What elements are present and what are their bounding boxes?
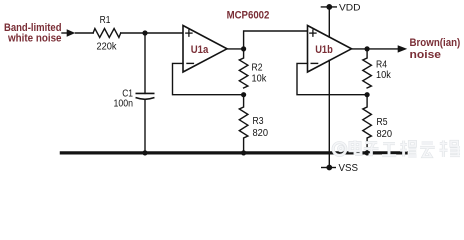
resistor R1	[93, 29, 121, 38]
wire: node A to U1a + input	[145, 32, 183, 34]
svg-text:U1a: U1a	[191, 44, 209, 56]
svg-text:noise: noise	[410, 49, 442, 61]
capacitor C1	[136, 93, 153, 99]
input net label: Band-limited white noise	[4, 22, 62, 45]
output signal arrow	[398, 45, 408, 52]
rail junction dot at C1	[142, 150, 147, 155]
wire: node A down to C1	[144, 33, 146, 93]
svg-text:VDD: VDD	[339, 3, 361, 14]
op-amp U1a	[183, 26, 227, 73]
wire: U1a output to node B	[227, 48, 244, 50]
resistor R4	[363, 49, 372, 88]
node D junction dot (U1b out / R4 / output)	[365, 46, 370, 51]
svg-text:10k: 10k	[376, 70, 392, 81]
svg-text:MCP6002: MCP6002	[227, 10, 270, 22]
rail junction dot at R5	[365, 150, 370, 155]
op-amp U1b	[308, 26, 352, 73]
resistor R2	[239, 49, 248, 88]
wire: R1 to node A	[121, 32, 145, 34]
rail junction dot at R3	[241, 150, 246, 155]
input signal arrow	[62, 29, 75, 36]
wire: U1b - input feedback (left and down)	[297, 63, 367, 94]
svg-text:white noise: white noise	[7, 33, 61, 45]
svg-text:Brown(ian): Brown(ian)	[410, 37, 461, 49]
svg-text:R2: R2	[252, 62, 263, 73]
node C junction dot (R2/R3/U1a feedback)	[241, 92, 246, 97]
wire: arrow to R1	[76, 32, 94, 34]
VSS power symbol	[322, 165, 336, 171]
output net label: Brown(ian) noise	[410, 37, 461, 61]
resistor R3	[239, 95, 248, 153]
svg-text:U1b: U1b	[315, 44, 333, 56]
svg-text:10k: 10k	[252, 73, 268, 84]
wire: U1a - input feedback (left and down)	[173, 63, 244, 94]
svg-text:100n: 100n	[114, 98, 134, 109]
wire: C1 to ground rail	[144, 99, 146, 153]
node E junction dot (R4/R5/U1b feedback)	[365, 92, 370, 97]
svg-text:R5: R5	[377, 117, 388, 128]
node A junction dot (R1/C1/U1a+)	[142, 30, 147, 35]
wire: node B up and right to U1b + input	[244, 31, 308, 49]
VSS power line from U1b	[328, 60, 330, 167]
resistor R5	[363, 95, 372, 153]
svg-text:R4: R4	[376, 60, 387, 71]
svg-text:220k: 220k	[97, 42, 118, 53]
svg-text:R1: R1	[100, 15, 111, 26]
svg-text:VSS: VSS	[339, 163, 359, 174]
svg-text:820: 820	[253, 128, 269, 139]
svg-text:R3: R3	[253, 116, 264, 127]
node B junction dot (U1a out / R2 / U1b+)	[241, 46, 246, 51]
wire: U1b output to node D	[352, 48, 368, 50]
wire: node D to output arrow	[367, 48, 399, 50]
watermark @electronics-engineering-album glyphs (light overlay)	[333, 140, 460, 157]
svg-text:820: 820	[377, 129, 393, 140]
ground rail (thick bus)	[61, 151, 406, 154]
VDD power symbol	[321, 4, 336, 37]
